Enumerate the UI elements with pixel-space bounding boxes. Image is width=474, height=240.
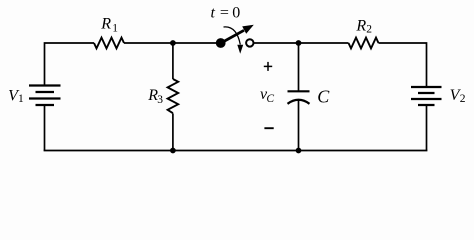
svg-text:2: 2	[460, 93, 466, 105]
battery V2	[411, 87, 442, 105]
resistor R1	[94, 38, 124, 49]
switch dot	[216, 38, 226, 48]
switch motion arrowhead	[237, 45, 243, 54]
wire R3 branch bottom	[172, 113, 174, 150]
node R3 bottom	[170, 148, 176, 154]
wire V1 bottom	[44, 105, 46, 151]
svg-text:1: 1	[112, 23, 118, 35]
node R3 top	[170, 40, 176, 46]
polarity minus	[264, 127, 273, 129]
node C bottom	[296, 148, 302, 154]
wire capacitor bottom lead	[298, 100, 300, 151]
svg-text:R: R	[355, 17, 366, 34]
switch blade arrowhead	[242, 25, 254, 34]
svg-text:C: C	[317, 86, 330, 106]
switch open terminal circle	[246, 39, 253, 46]
capacitor C curved plate	[288, 100, 310, 104]
resistor R2	[349, 38, 379, 49]
wire top-left rail from V1 to switch dot	[45, 43, 95, 86]
wire bottom rail	[44, 150, 428, 152]
wire switch to top-right rail	[254, 42, 349, 44]
wire R3 branch top	[172, 43, 174, 79]
wire R2 to V2	[379, 43, 427, 87]
wire V2 bottom	[426, 105, 428, 151]
svg-text:R: R	[100, 15, 111, 32]
node C top	[296, 40, 302, 46]
polarity plus	[264, 62, 272, 71]
svg-text:C: C	[266, 93, 274, 105]
wire capacitor top lead	[298, 43, 300, 91]
switch blade	[221, 30, 244, 43]
switch motion arc	[224, 27, 241, 45]
svg-text:1: 1	[18, 93, 24, 105]
capacitor C top plate	[288, 90, 310, 92]
wire R1 to switch	[124, 42, 221, 44]
battery V1	[29, 86, 61, 106]
resistor R3	[168, 79, 179, 113]
svg-text:3: 3	[157, 94, 163, 106]
svg-text:2: 2	[366, 23, 372, 35]
